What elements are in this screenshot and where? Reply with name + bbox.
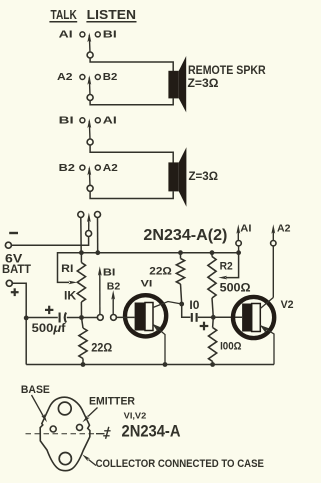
switch S2a pole arm xyxy=(88,121,91,139)
wire R2 top to rail xyxy=(211,253,213,257)
wire tap to C1 xyxy=(26,317,58,319)
junction rail 100ohm xyxy=(210,362,215,367)
svg-text:Z=3Ω: Z=3Ω xyxy=(189,169,219,183)
speaker SPKR2 frame xyxy=(168,162,178,191)
svg-text:A2: A2 xyxy=(103,163,118,174)
junction rail 22ohm-b xyxy=(81,362,86,367)
R2 wiper loop xyxy=(226,253,239,278)
svg-text:500μf: 500μf xyxy=(32,322,66,335)
junction rail R2 xyxy=(210,250,215,255)
switch S2b contact left xyxy=(80,165,85,170)
transistor V1 base bar light xyxy=(145,303,153,331)
resistor 100ohm zigzag xyxy=(209,328,217,362)
wire pole4 to SPKR2 bottom xyxy=(90,191,173,198)
wire 22ohm-b top xyxy=(82,318,84,329)
switch S1a pole terminal xyxy=(87,52,93,58)
switch S3 contact left xyxy=(78,212,84,218)
label C1 plus sign xyxy=(45,309,53,311)
package top mounting hole xyxy=(58,402,71,415)
package emitter pin xyxy=(77,424,83,430)
svg-text:V2: V2 xyxy=(281,299,294,311)
junction V1 emitter node xyxy=(179,302,184,307)
wire 22ohm top to rail xyxy=(180,253,182,259)
svg-text:I0: I0 xyxy=(189,299,199,312)
svg-text:Z=3Ω: Z=3Ω xyxy=(188,76,219,90)
wire contact left down to rail xyxy=(80,218,82,253)
V2 emitter line xyxy=(260,298,273,309)
svg-text:I00Ω: I00Ω xyxy=(220,341,241,353)
switch S1b pole terminal xyxy=(87,95,93,101)
switch S1a contact left xyxy=(80,32,85,37)
svg-text:VI,V2: VI,V2 xyxy=(124,410,147,420)
R1 wiper loop xyxy=(58,253,82,283)
terminal A1 circle xyxy=(236,241,241,246)
V1 emitter line xyxy=(153,302,182,308)
battery minus sign xyxy=(9,232,18,234)
wire C2 to interstage node xyxy=(198,316,214,318)
V1 collector line xyxy=(153,325,165,365)
switch S1a contact right xyxy=(95,32,100,37)
transistor V2 body xyxy=(233,297,274,338)
switch S2b contact right xyxy=(95,165,100,170)
wire V1 base xyxy=(116,316,134,318)
wire 100ohm top xyxy=(212,317,215,327)
svg-text:AI: AI xyxy=(59,30,73,41)
label C2 plus sign xyxy=(200,325,209,327)
wire R2 bottom xyxy=(212,298,213,317)
svg-text:22Ω: 22Ω xyxy=(149,265,172,277)
terminal A1 arrow xyxy=(237,230,239,241)
resistor R2 500ohm zigzag xyxy=(208,257,216,299)
junction plus tap to C1 xyxy=(24,316,29,321)
svg-text:B2: B2 xyxy=(59,163,76,174)
wire A2 down to V2 emitter xyxy=(272,246,274,298)
junction R1 bottom xyxy=(79,315,84,320)
transistor V1 base bar dark xyxy=(135,303,145,331)
wire minus terminal to switch pole xyxy=(11,237,88,246)
transistor V2 base bar light xyxy=(252,304,261,332)
junction rail 22ohm xyxy=(178,250,183,255)
terminal B1 circle xyxy=(97,315,103,321)
switch S2a contact left xyxy=(80,118,85,123)
svg-text:BI: BI xyxy=(59,116,74,127)
svg-text:BI: BI xyxy=(103,267,116,279)
terminal A2 arrow xyxy=(272,230,274,241)
speaker SPKR1 cone xyxy=(179,56,186,112)
transistor V1 body xyxy=(125,295,166,336)
speaker SPKR1 frame xyxy=(168,71,178,99)
svg-text:BATT: BATT xyxy=(2,262,32,276)
switch S2a pole terminal xyxy=(87,139,93,145)
speaker SPKR2 cone xyxy=(179,147,187,207)
COLLECTOR leader arrow xyxy=(89,460,97,466)
svg-text:A2: A2 xyxy=(57,72,73,83)
transistor V2 base bar dark xyxy=(242,304,252,332)
svg-text:R2: R2 xyxy=(220,261,233,273)
label battery plus sign xyxy=(11,291,19,293)
switch S1a pole arm xyxy=(88,35,91,52)
svg-text:BASE: BASE xyxy=(21,384,50,396)
svg-text:EMITTER: EMITTER xyxy=(89,396,135,408)
package base pin xyxy=(50,426,56,432)
package bottom mounting hole xyxy=(59,453,71,465)
svg-text:LISTEN: LISTEN xyxy=(87,8,136,22)
resistor 22ohm bottom zigzag xyxy=(79,328,87,359)
package centerline dashes xyxy=(26,433,97,435)
capacitor C1 500uf plates xyxy=(59,313,61,323)
svg-text:RI: RI xyxy=(61,263,73,275)
switch S1b contact right xyxy=(95,75,100,80)
R2 wiper arrow xyxy=(218,276,227,280)
switch S2b pole terminal xyxy=(87,185,93,191)
wire pole2 to SPKR1 bottom xyxy=(90,98,173,105)
wire 100ohm bottom xyxy=(212,362,214,365)
junction rail col A xyxy=(79,250,84,255)
terminal B2 circle xyxy=(111,315,117,321)
wire R1 top to rail xyxy=(80,253,82,263)
wire node to V2 base xyxy=(213,316,242,318)
wire pole3 to SPKR2 top xyxy=(90,145,173,163)
EMITTER leader arrow xyxy=(88,408,98,417)
V2 collector arrow xyxy=(260,325,270,333)
centerline symbol xyxy=(106,427,109,439)
svg-text:COLLECTOR CONNECTED TO CASE: COLLECTOR CONNECTED TO CASE xyxy=(96,458,264,470)
wire contact right down to rail xyxy=(97,218,99,253)
junction rail A1 xyxy=(236,250,241,255)
wire plus terminal down to bottom rail xyxy=(12,283,26,364)
resistor 22ohm top zigzag xyxy=(176,259,184,285)
svg-text:500Ω: 500Ω xyxy=(220,281,251,295)
top supply rail xyxy=(81,252,238,254)
svg-text:VI: VI xyxy=(141,278,153,289)
wire 22ohm bottom to emitter node xyxy=(181,284,182,304)
wire C1 to B1 terminal xyxy=(67,317,98,319)
svg-text:AI: AI xyxy=(240,222,251,234)
battery minus terminal xyxy=(5,242,11,248)
resistor R1 1K zigzag xyxy=(77,263,85,303)
svg-text:2N234-A(2): 2N234-A(2) xyxy=(143,227,227,244)
switch S1b contact left xyxy=(80,75,85,80)
switch S2a contact right xyxy=(95,118,100,123)
terminal B2 arrow xyxy=(112,296,114,315)
svg-text:B2: B2 xyxy=(107,280,121,292)
R1 wiper arrow xyxy=(69,281,78,285)
svg-text:22Ω: 22Ω xyxy=(91,342,112,355)
svg-text:A2: A2 xyxy=(277,222,291,234)
bottom rail xyxy=(26,364,274,366)
capacitor C2 10 plates xyxy=(191,313,193,322)
svg-text:IK: IK xyxy=(64,290,77,303)
V2 collector line xyxy=(260,326,274,365)
BASE leader arrow xyxy=(32,395,44,417)
switch S3 contact right xyxy=(95,212,101,218)
switch S3 pole terminal xyxy=(86,231,92,237)
terminal A2 circle xyxy=(271,241,276,246)
svg-text:BI: BI xyxy=(103,30,117,41)
switch S2b pole arm xyxy=(88,168,91,185)
wire pole1 to SPKR1 top xyxy=(90,58,173,71)
svg-text:B2: B2 xyxy=(103,72,118,83)
junction rail col B xyxy=(95,250,100,255)
switch S1b pole arm xyxy=(88,78,91,95)
wire R1 bottom to junction xyxy=(80,302,82,318)
wire emitter node down to C2 xyxy=(182,304,191,317)
svg-text:2N234-A: 2N234-A xyxy=(122,422,181,441)
junction rail V1 collector xyxy=(163,362,168,367)
battery plus terminal xyxy=(6,280,12,286)
junction interstage node xyxy=(211,315,216,320)
wire A1 to rail xyxy=(238,246,240,253)
V1 collector arrow xyxy=(152,324,162,333)
switch S3 pole arm xyxy=(88,217,90,231)
svg-text:AI: AI xyxy=(103,116,117,127)
svg-text:TALK: TALK xyxy=(51,8,77,22)
transistor package outline xyxy=(40,397,90,470)
wire 22ohm-b bottom xyxy=(82,359,84,365)
terminal B1 arrow xyxy=(99,272,101,314)
